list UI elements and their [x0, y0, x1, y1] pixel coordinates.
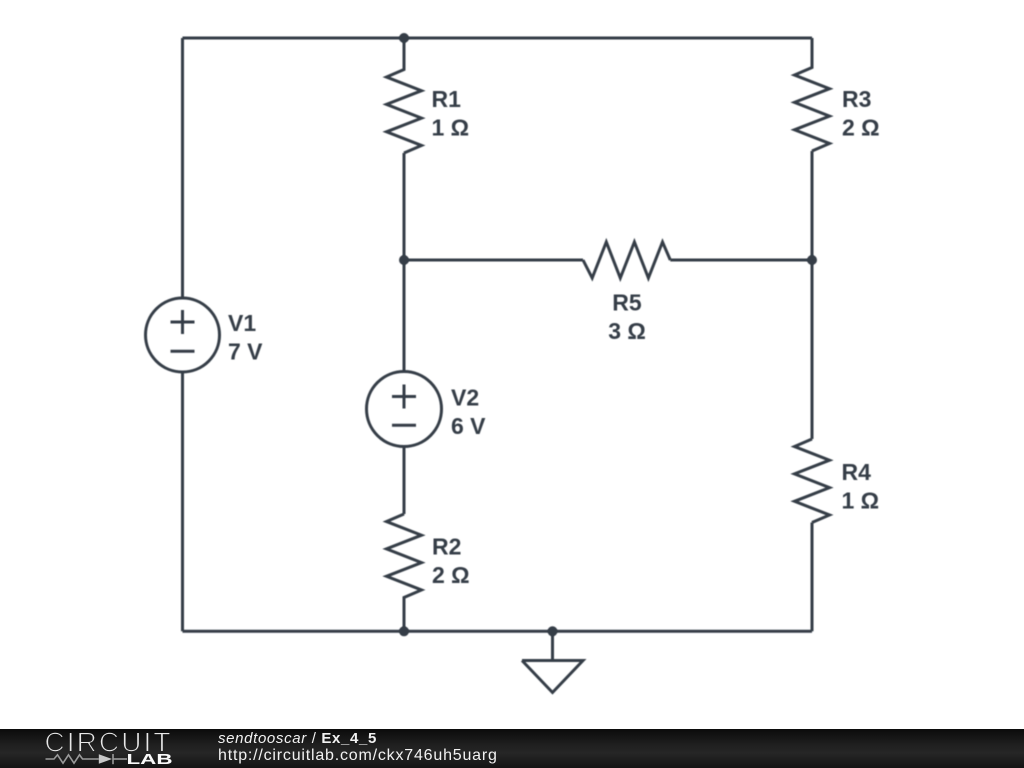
- svg-text:LAB: LAB: [127, 751, 173, 768]
- svg-text:6 V: 6 V: [451, 413, 486, 439]
- svg-text:1 Ω: 1 Ω: [432, 115, 470, 141]
- svg-text:R4: R4: [842, 459, 872, 485]
- wire: right rail lower (R4 to bottom rail): [811, 523, 814, 632]
- label V1 value 7 V: [228, 310, 263, 365]
- resistor R1: [387, 38, 422, 153]
- node: bottom junction: [399, 626, 409, 636]
- svg-text:R1: R1: [432, 86, 462, 112]
- wire: top rail: [183, 37, 813, 40]
- node: right middle junction: [807, 255, 817, 265]
- node: middle junction: [399, 255, 409, 265]
- svg-text:7 V: 7 V: [228, 339, 263, 365]
- wire: bottom rail (ground net): [183, 630, 813, 633]
- wire: V2 top lead: [403, 260, 406, 372]
- wire: middle rail left: [404, 259, 583, 262]
- label R3 value 2 Ω: [842, 86, 880, 141]
- resistor R4: [795, 439, 830, 523]
- svg-text:3 Ω: 3 Ω: [608, 318, 646, 344]
- label R1 value 1 Ω: [432, 86, 470, 141]
- voltage source V1: [146, 298, 220, 372]
- resistor R3: [795, 38, 830, 151]
- logo wordmark LAB: [127, 751, 173, 768]
- logo wordmark CIRCUIT: [45, 727, 173, 758]
- label R2 value 2 Ω: [432, 534, 470, 589]
- svg-text:2 Ω: 2 Ω: [842, 115, 880, 141]
- wire: R1 bottom lead to middle junction: [403, 153, 406, 260]
- logo schematic squiggle: resistor and diode: [46, 754, 128, 764]
- svg-text:R5: R5: [612, 290, 642, 316]
- wire: right rail middle (junction to R4): [811, 260, 814, 439]
- node: top junction: [399, 33, 409, 43]
- footer url: [218, 748, 498, 764]
- resistor R5: [583, 242, 670, 278]
- wire: middle rail right: [670, 259, 812, 262]
- label R5 value 3 Ω: [608, 290, 646, 345]
- svg-text:R2: R2: [432, 534, 461, 560]
- label V2 value 6 V: [451, 385, 486, 440]
- svg-text:2 Ω: 2 Ω: [432, 562, 470, 588]
- svg-text:R3: R3: [842, 86, 871, 112]
- label R4 value 1 Ω: [842, 459, 880, 514]
- wire: right rail upper (R3 to right middle junction): [811, 151, 814, 260]
- svg-text:1 Ω: 1 Ω: [842, 488, 880, 514]
- wire: V2 bottom lead: [403, 447, 406, 515]
- svg-text:V1: V1: [228, 310, 256, 336]
- resistor R2: [387, 514, 422, 631]
- svg-text:V2: V2: [451, 385, 479, 411]
- footer title: author / schematic name: [218, 731, 377, 746]
- wire: left rail upper: [181, 38, 184, 299]
- node: ground junction: [548, 626, 558, 636]
- logo diode triangle: [99, 754, 112, 764]
- voltage source V2: [367, 372, 442, 447]
- wire: left rail lower: [181, 372, 184, 632]
- footer bar: [0, 729, 1024, 768]
- ground symbol: [522, 631, 583, 692]
